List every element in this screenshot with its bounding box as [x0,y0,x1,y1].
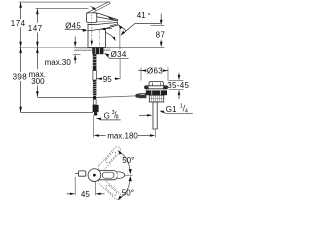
water stream arrow [106,33,114,39]
50° phantom lever down [97,177,123,201]
50° phantom lever up [97,145,123,201]
cartridge neck line [97,20,113,23]
svg-text:3: 3 [112,110,115,116]
faucet top view body [96,171,118,180]
extension line top (raised lever tip level, ref for 174) [19,1,110,3]
deck bottom line [74,50,111,52]
locknut (dark) [146,90,167,95]
flange end shading [145,86,149,88]
svg-text:G: G [104,111,110,120]
svg-text:°: ° [148,11,151,20]
dim max.180 [94,115,156,137]
dim 45 [75,177,95,196]
svg-text:147: 147 [28,24,43,33]
pop-up rod to drain [95,96,138,98]
svg-text:G1: G1 [166,105,177,114]
tailpipe [153,102,157,129]
svg-text:Ø34: Ø34 [111,50,127,59]
lever grip tip [117,172,124,179]
small leader arrow at raised lever [91,6,95,9]
leader arrow pointing left at body [102,27,112,29]
lone arrow pointing at tailpipe [139,114,151,116]
deck top line [19,46,74,48]
plug stem lines [151,82,153,85]
hose upper connector (white) [93,71,96,81]
dim line 174/398 vertical [20,2,22,19]
swivel arc upper [119,152,130,172]
svg-text:45: 45 [81,190,90,199]
aerator line under spout tip [110,24,117,26]
svg-text:95: 95 [103,75,112,84]
G 3/8 end fitting [93,105,99,112]
dashed aerator axis with down arrow [91,24,93,42]
dim 87 (spout height) [151,24,165,26]
threaded body [149,95,163,102]
pop-up rod clevis [139,93,147,98]
aerator dot [93,174,96,177]
dim 95 (reach) [97,78,121,80]
flange [145,86,168,89]
braided hose (dark with thread marks) [93,80,97,95]
pipe below joint [93,99,96,105]
svg-text:174: 174 [11,19,26,28]
swivel arc lower [119,178,130,198]
faucet body [88,22,118,47]
arrowheads left dims [19,2,38,112]
svg-text:Ø63: Ø63 [147,67,163,76]
lever top face [102,172,114,178]
398 ref line (supply pipe end level) [21,112,93,114]
svg-text:max.30: max.30 [45,58,72,67]
svg-text:398: 398 [13,72,28,81]
junction dot (pop-up rod joint) [93,96,96,99]
basin hatch under flange [146,89,167,91]
max.30 bottom ref line (deck underside) [73,53,81,55]
pop-up rod knob [75,173,78,175]
svg-text:50°: 50° [122,189,134,198]
threaded shank below nut [93,54,97,70]
svg-text:max.180: max.180 [107,131,138,140]
body centerline [99,30,101,47]
svg-text:35-45: 35-45 [167,81,189,90]
centerline right [125,174,133,176]
svg-text:1: 1 [180,104,183,110]
mounting nut below deck [92,48,103,55]
raised lever phantom (41° open position) [86,2,110,15]
max300 ref line [37,97,95,99]
spout underside line to body [88,29,105,31]
dim line 147/max300 vertical [36,9,38,23]
lever bar (rest position) [97,13,118,21]
svg-text:50°: 50° [122,156,134,165]
svg-text:87: 87 [156,30,166,39]
deck section hatching [75,48,111,51]
svg-text:41: 41 [137,11,146,20]
svg-text:300: 300 [31,77,45,86]
plug dome [149,81,164,85]
lever front cap [87,13,97,23]
extension line (lever rest top level, ref for 147) [36,8,89,10]
